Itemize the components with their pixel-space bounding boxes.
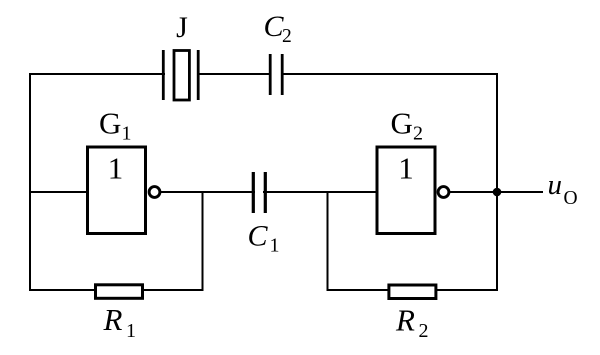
junction node (493, 188, 502, 197)
svg-text:1: 1 (270, 235, 280, 257)
wire G2 output to uO (449, 191, 543, 193)
wire C2 to right vertical (281, 73, 498, 75)
svg-text:J: J (176, 11, 188, 44)
svg-text:1: 1 (122, 122, 132, 144)
svg-text:O: O (564, 188, 578, 209)
label G1 (99, 105, 132, 144)
label R2 (395, 303, 429, 343)
svg-text:C: C (248, 220, 269, 253)
svg-text:R: R (103, 302, 123, 337)
svg-text:2: 2 (419, 320, 429, 342)
svg-text:u: u (548, 169, 563, 201)
svg-text:R: R (395, 303, 415, 338)
svg-text:2: 2 (413, 122, 423, 144)
label R1 (103, 302, 137, 342)
svg-text:2: 2 (282, 26, 292, 47)
crystal J (163, 50, 198, 100)
label C2 (264, 10, 292, 47)
inverter G1 (88, 147, 160, 234)
wire left vertical (29, 73, 31, 291)
capacitor C1 (253, 172, 265, 213)
wire bottom left loop (29, 289, 204, 291)
svg-text:1: 1 (126, 320, 136, 342)
wire between crystal and C2 (197, 73, 271, 75)
wire bottom right loop (327, 289, 499, 291)
inverter G2 (377, 147, 449, 234)
svg-text:G: G (99, 105, 121, 140)
capacitor C2 (270, 54, 282, 95)
label G2 (391, 105, 424, 144)
svg-text:G: G (391, 105, 413, 140)
resistor R1 (96, 285, 143, 299)
wire drop to R2 (327, 191, 329, 291)
wire right vertical (496, 73, 498, 291)
label C1 (248, 220, 280, 257)
svg-text:1: 1 (108, 151, 124, 186)
wire top-left segment (29, 73, 165, 75)
resistor R2 (389, 285, 436, 299)
wire G1 output to C1 (160, 191, 255, 193)
wire drop from G1 output (202, 191, 204, 291)
wire G1 input (29, 191, 88, 193)
wire C1 to G2 input (263, 191, 378, 193)
svg-text:1: 1 (398, 151, 414, 186)
label uO (548, 169, 578, 209)
